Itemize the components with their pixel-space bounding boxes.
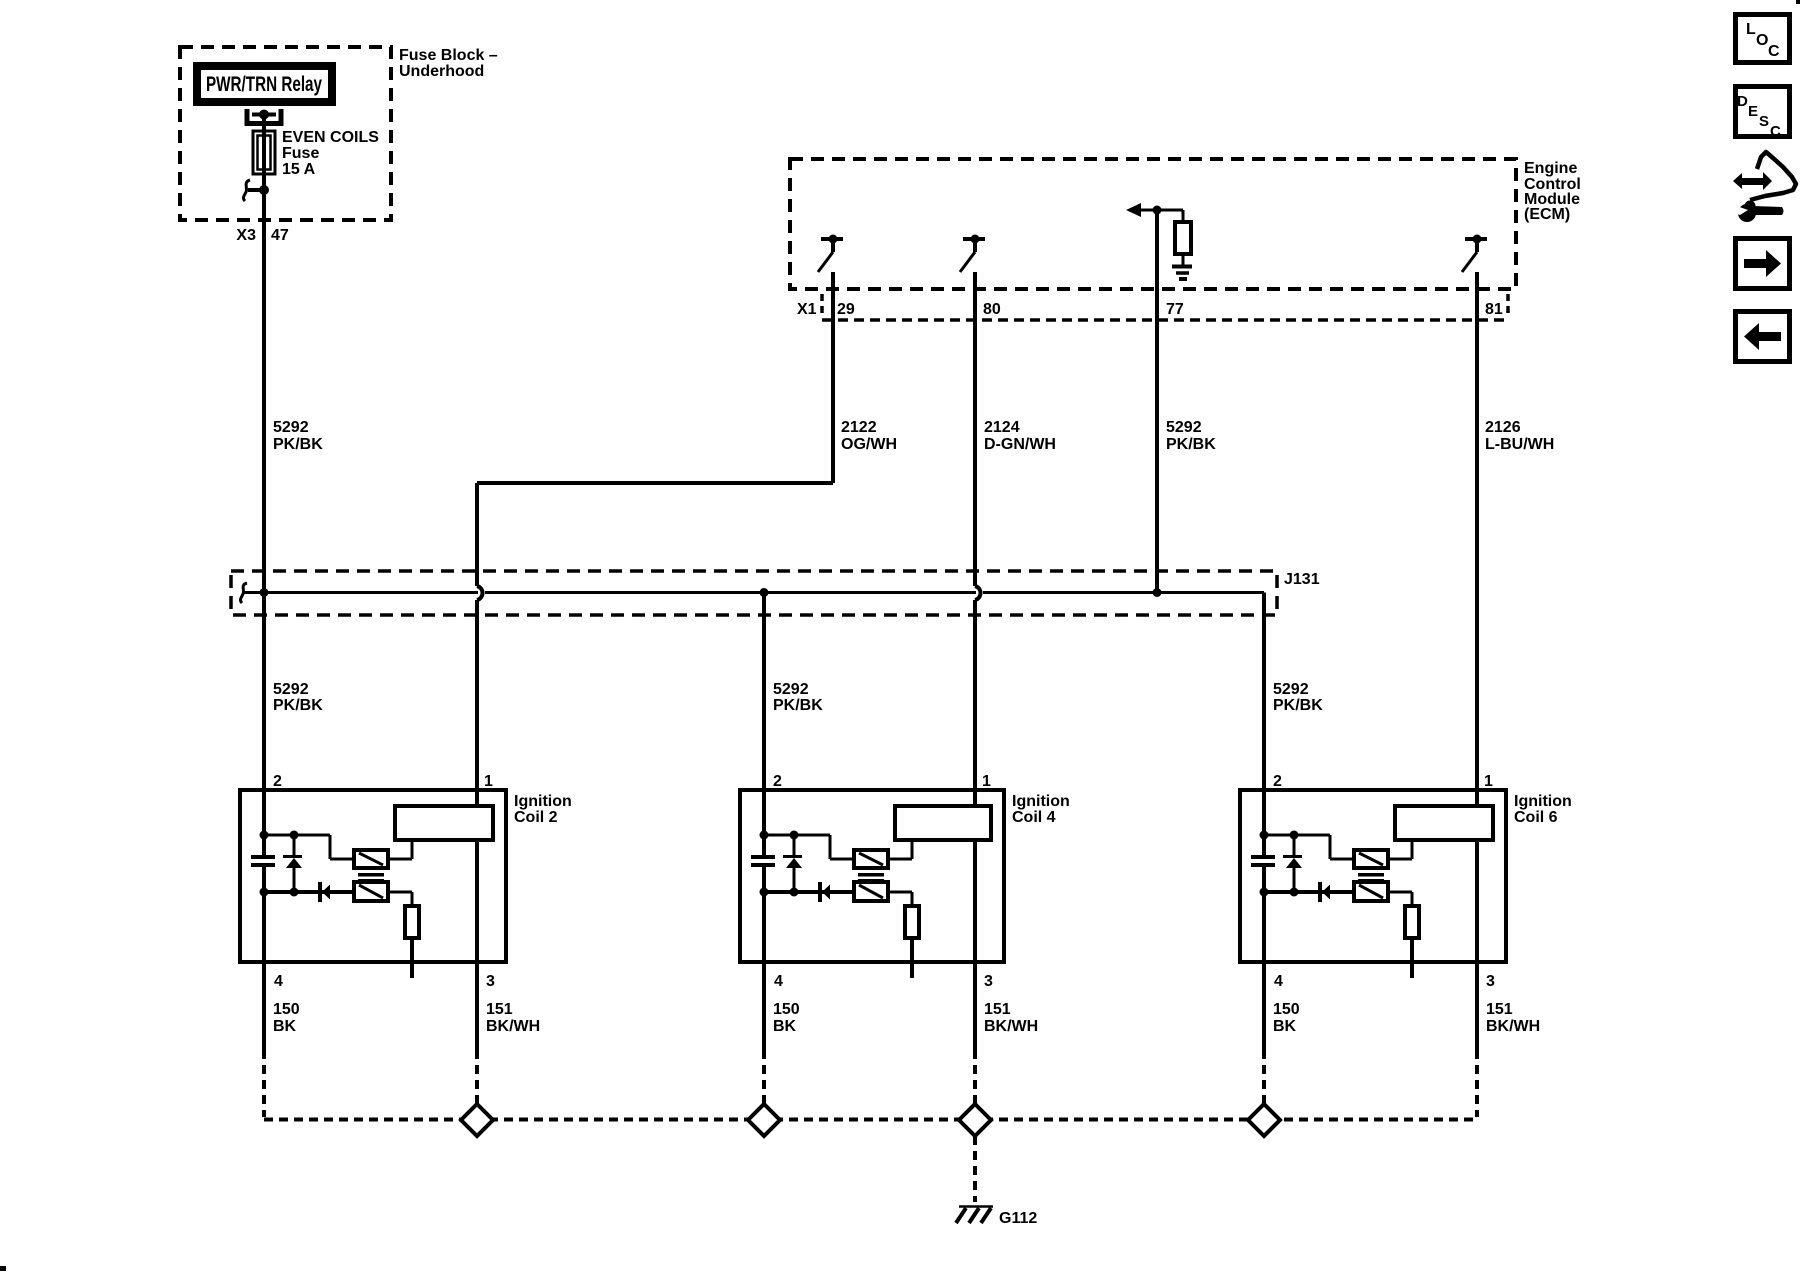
svg-text:D: D <box>1737 93 1748 110</box>
svg-text:PWR/TRN Relay: PWR/TRN Relay <box>206 73 322 96</box>
svg-text:1: 1 <box>1484 773 1493 790</box>
svg-text:(ECM): (ECM) <box>1524 206 1570 223</box>
svg-text:BK/WH: BK/WH <box>1486 1018 1540 1035</box>
svg-text:BK: BK <box>273 1018 297 1035</box>
svg-text:150: 150 <box>773 1001 800 1018</box>
svg-text:L-BU/WH: L-BU/WH <box>1485 436 1554 453</box>
svg-text:Underhood: Underhood <box>399 63 484 80</box>
svg-text:Fuse: Fuse <box>282 145 319 162</box>
svg-text:15 A: 15 A <box>282 161 316 178</box>
svg-text:5292: 5292 <box>273 681 309 698</box>
svg-text:5292: 5292 <box>1273 681 1309 698</box>
svg-text:PK/BK: PK/BK <box>273 697 323 714</box>
svg-text:C: C <box>1770 123 1781 140</box>
svg-text:47: 47 <box>271 227 289 244</box>
svg-text:Coil 4: Coil 4 <box>1012 809 1056 826</box>
svg-text:Ignition: Ignition <box>514 793 572 810</box>
svg-text:2122: 2122 <box>841 419 877 436</box>
svg-text:2: 2 <box>773 773 782 790</box>
svg-text:X1: X1 <box>797 301 817 318</box>
svg-text:151: 151 <box>984 1001 1011 1018</box>
svg-text:3: 3 <box>984 973 993 990</box>
svg-text:PK/BK: PK/BK <box>1166 436 1216 453</box>
svg-text:3: 3 <box>486 973 495 990</box>
svg-text:150: 150 <box>273 1001 300 1018</box>
svg-text:3: 3 <box>1486 973 1495 990</box>
svg-text:OG/WH: OG/WH <box>841 436 897 453</box>
svg-text:150: 150 <box>1273 1001 1300 1018</box>
svg-text:77: 77 <box>1166 301 1184 318</box>
svg-text:X3: X3 <box>236 227 256 244</box>
svg-text:5292: 5292 <box>1166 419 1202 436</box>
svg-text:80: 80 <box>983 301 1001 318</box>
svg-text:151: 151 <box>1486 1001 1513 1018</box>
svg-text:Coil 6: Coil 6 <box>1514 809 1558 826</box>
svg-text:E: E <box>1748 103 1758 120</box>
svg-text:1: 1 <box>982 773 991 790</box>
svg-text:PK/BK: PK/BK <box>1273 697 1323 714</box>
svg-text:2: 2 <box>1273 773 1282 790</box>
svg-text:1: 1 <box>484 773 493 790</box>
svg-text:BK: BK <box>1273 1018 1297 1035</box>
svg-text:G112: G112 <box>999 1210 1037 1227</box>
svg-text:EVEN COILS: EVEN COILS <box>282 129 379 146</box>
svg-text:BK/WH: BK/WH <box>486 1018 540 1035</box>
svg-text:BK: BK <box>773 1018 797 1035</box>
svg-text:O: O <box>1756 32 1768 49</box>
svg-text:Fuse Block –: Fuse Block – <box>399 47 498 64</box>
svg-text:J131: J131 <box>1284 571 1320 588</box>
svg-text:2126: 2126 <box>1485 419 1521 436</box>
svg-text:29: 29 <box>837 301 855 318</box>
svg-text:4: 4 <box>274 973 283 990</box>
svg-text:PK/BK: PK/BK <box>773 697 823 714</box>
svg-text:151: 151 <box>486 1001 513 1018</box>
svg-text:4: 4 <box>1274 973 1283 990</box>
svg-text:Ignition: Ignition <box>1514 793 1572 810</box>
svg-text:L: L <box>1746 21 1756 38</box>
svg-text:BK/WH: BK/WH <box>984 1018 1038 1035</box>
svg-text:C: C <box>1768 43 1780 60</box>
svg-text:Coil 2: Coil 2 <box>514 809 558 826</box>
svg-text:5292: 5292 <box>273 419 309 436</box>
svg-text:D-GN/WH: D-GN/WH <box>984 436 1056 453</box>
svg-text:4: 4 <box>774 973 783 990</box>
svg-text:Engine: Engine <box>1524 160 1577 177</box>
svg-text:5292: 5292 <box>773 681 809 698</box>
svg-text:PK/BK: PK/BK <box>273 436 323 453</box>
svg-text:Ignition: Ignition <box>1012 793 1070 810</box>
svg-text:81: 81 <box>1485 301 1503 318</box>
svg-text:2124: 2124 <box>984 419 1020 436</box>
svg-text:S: S <box>1759 113 1769 130</box>
svg-text:2: 2 <box>273 773 282 790</box>
